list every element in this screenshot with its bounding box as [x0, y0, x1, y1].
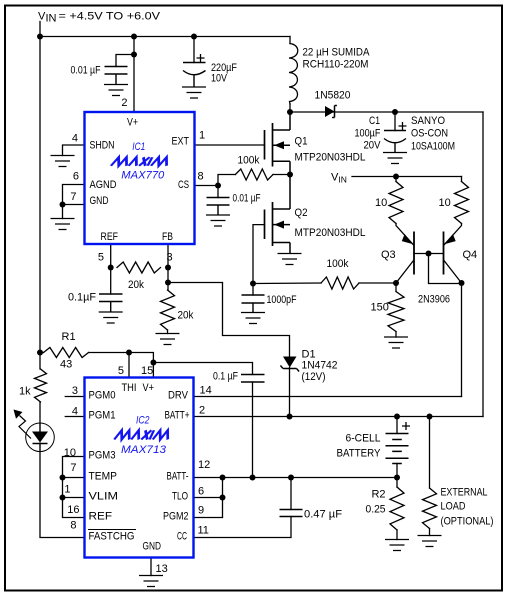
wire 150 stems — [395, 283, 397, 292]
capacitor 0.47uF — [280, 510, 303, 517]
svg-text:10: 10 — [439, 197, 451, 209]
resistor R2 0.25 — [390, 487, 404, 530]
svg-text:MAX713: MAX713 — [121, 444, 167, 456]
junction V+ rail — [131, 34, 137, 40]
junction REF node — [108, 265, 114, 271]
wire zener to BATT+ rail — [289, 368, 291, 417]
svg-text:EXT: EXT — [172, 136, 190, 148]
wire IC2 GND pin13 — [150, 558, 152, 576]
capacitor C1 100uF polarized — [384, 131, 406, 153]
svg-text:V+: V+ — [143, 382, 155, 394]
wire 100k to Q3 collector node — [359, 282, 396, 284]
battery 6-cell — [386, 434, 409, 464]
ground at external load — [418, 536, 442, 547]
wire PGM1 stub — [65, 416, 84, 418]
junction VLIM tie — [60, 495, 66, 501]
svg-text:100k: 100k — [327, 258, 349, 270]
junction C1 tap — [392, 109, 398, 115]
plus sign C1 — [399, 122, 407, 130]
wire R1 to V+ corner — [89, 353, 154, 378]
svg-text:CS: CS — [178, 179, 189, 191]
svg-text:1000pF: 1000pF — [267, 294, 297, 306]
svg-text:CC: CC — [177, 531, 187, 543]
wire TLO/PGM2 bracket — [195, 478, 223, 518]
transistor Q1 MTP20N03HDL n-MOSFET — [265, 112, 291, 175]
junction VIN rail left — [37, 34, 43, 40]
wire BATT- rail — [195, 477, 398, 479]
LED arrow — [19, 416, 31, 439]
svg-text:PGM2: PGM2 — [163, 511, 189, 523]
junction 0.47uF top — [288, 475, 294, 481]
resistor 100k at CS — [235, 169, 273, 180]
capacitor 0.1uF at REF — [99, 294, 123, 312]
wire DRV line — [195, 396, 462, 398]
ground at 150 — [384, 337, 408, 348]
svg-text:2N3906: 2N3906 — [418, 294, 450, 306]
resistor 20k horizontal — [117, 262, 161, 273]
transistor Q3 2N3906 pnp — [413, 232, 415, 275]
op-amp U IC2 MAX713 box — [85, 378, 194, 558]
wire 10L stem — [395, 177, 397, 182]
svg-text:TEMP: TEMP — [89, 471, 118, 483]
svg-text:(OPTIONAL): (OPTIONAL) — [441, 516, 494, 528]
wire inductor bottom lead — [289, 104, 291, 112]
junction TLO tap — [220, 495, 226, 501]
junction FB divider tap — [165, 280, 171, 286]
svg-text:FB: FB — [162, 231, 173, 243]
svg-text:3: 3 — [72, 385, 78, 397]
svg-text:THI: THI — [122, 382, 137, 394]
resistor 1k — [35, 369, 47, 402]
ground at R2 — [385, 540, 409, 551]
junction AGND/GND tie — [60, 202, 66, 208]
wire Q4 emitter lead — [444, 224, 462, 246]
svg-text:PGM1: PGM1 — [89, 410, 116, 422]
wire right rail down — [482, 112, 484, 417]
svg-text:7: 7 — [70, 462, 76, 474]
svg-text:REF: REF — [89, 511, 113, 523]
wire Q3 collector diagonal — [396, 261, 414, 284]
junction 0.01uF tap — [131, 52, 137, 58]
wire CS cap stem — [217, 186, 219, 198]
svg-text:22 µH SUMIDA: 22 µH SUMIDA — [303, 47, 371, 59]
wire Q4 collector diagonal — [444, 261, 462, 284]
junction battery top — [394, 414, 400, 420]
MAXIM logo IC2 — [114, 430, 171, 439]
svg-text:TLO: TLO — [172, 491, 188, 503]
ground at 20k vertical — [156, 334, 180, 345]
svg-text:REF: REF — [101, 231, 119, 243]
svg-text:Q1: Q1 — [295, 136, 308, 148]
MAXIM logo IC1 — [111, 157, 170, 166]
wire gate node to 100k — [253, 282, 321, 285]
wire Q3 emitter lead — [396, 224, 414, 246]
svg-text:0.47 µF: 0.47 µF — [304, 509, 342, 521]
svg-text:IC1: IC1 — [132, 141, 145, 153]
wire base node down to DRV node — [429, 254, 462, 284]
junction ext load tap — [427, 414, 433, 420]
svg-text:5: 5 — [118, 365, 124, 377]
junction Q2 gate node — [250, 281, 256, 287]
wire FB node to zener riser — [168, 283, 290, 358]
svg-text:BATTERY: BATTERY — [337, 448, 382, 460]
svg-text:3: 3 — [167, 252, 173, 264]
wire IC1 AGND — [63, 185, 85, 205]
wire 0.01uF branch — [116, 55, 134, 67]
svg-text:(12V): (12V) — [302, 371, 326, 383]
svg-text:Q2: Q2 — [295, 207, 308, 219]
resistor 10 right — [455, 182, 469, 224]
wire PGM0 stub — [65, 396, 84, 398]
svg-text:15: 15 — [141, 365, 153, 377]
svg-text:20V: 20V — [364, 140, 382, 152]
junction L1/Q1 drain — [287, 109, 293, 115]
wire IC1 EXT to Q1 gate — [195, 144, 265, 146]
wire R2 stems — [396, 478, 398, 488]
wire LED bottom to FASTCHG — [40, 452, 85, 538]
svg-text:0.25: 0.25 — [366, 504, 386, 516]
svg-text:8: 8 — [198, 171, 204, 183]
ground at IC1 GND — [51, 219, 75, 230]
svg-text:EXTERNAL: EXTERNAL — [441, 487, 488, 499]
svg-text:150: 150 — [371, 302, 389, 314]
wire 100k to Q1 source node — [273, 174, 290, 176]
svg-text:7: 7 — [70, 191, 76, 203]
wire C1 stem — [394, 112, 396, 131]
junction BATT- bracket — [220, 475, 226, 481]
ground at 220uF — [182, 87, 206, 98]
wire VIN drop top-left — [39, 22, 41, 37]
svg-text:12: 12 — [198, 459, 210, 471]
svg-text:1N5820: 1N5820 — [315, 90, 351, 102]
svg-text:BATT+: BATT+ — [165, 410, 190, 422]
wire R1 left rail to zigzag — [40, 352, 44, 354]
wire CC to 0.47uF — [195, 517, 292, 538]
svg-text:100µF: 100µF — [355, 128, 381, 140]
svg-text:= +4.5V TO +6.0V: = +4.5V TO +6.0V — [59, 11, 161, 23]
junction zener/BATT+ — [287, 414, 293, 420]
wire 0.1uF down to BATT- rail — [252, 382, 254, 478]
svg-text:10V: 10V — [211, 73, 228, 85]
svg-text:OS-CON: OS-CON — [411, 128, 448, 140]
svg-text:0.1 µF: 0.1 µF — [213, 371, 238, 383]
LED indicator — [26, 423, 55, 452]
svg-text:10: 10 — [375, 197, 387, 209]
junction CS node — [215, 183, 221, 189]
svg-text:43: 43 — [60, 359, 72, 371]
svg-text:RCH110-220M: RCH110-220M — [303, 59, 369, 71]
svg-text:9: 9 — [198, 505, 204, 517]
wire BATT+ rail — [195, 416, 484, 418]
ground at Q2 source — [278, 254, 302, 265]
svg-text:DRV: DRV — [168, 390, 189, 402]
wire IC1 GND — [63, 205, 85, 219]
capacitor 0.01uF top-left — [105, 67, 128, 85]
op-amp U IC1 MAX770 box — [85, 112, 195, 244]
wire V+ node to 0.1uF — [153, 363, 252, 375]
svg-text:100k: 100k — [238, 155, 260, 167]
wire 10R stem — [461, 177, 463, 182]
junction FB node — [165, 265, 171, 271]
wire top rail — [40, 36, 290, 38]
wire 220uF stem — [193, 37, 195, 63]
svg-text:R2: R2 — [371, 489, 385, 501]
svg-text:PGM3: PGM3 — [89, 450, 116, 462]
svg-text:VLIM: VLIM — [89, 491, 119, 503]
ground at IC2 GND pin13 — [139, 576, 163, 587]
svg-text:20k: 20k — [128, 279, 144, 291]
svg-text:6: 6 — [198, 486, 204, 498]
svg-text:BATT-: BATT- — [167, 471, 189, 483]
wire Q2 gate run — [253, 225, 265, 284]
svg-text:14: 14 — [200, 385, 212, 397]
wire 1k top lead — [39, 402, 41, 423]
resistor 150 — [388, 292, 404, 332]
wire Q3 base to Q4 base — [414, 253, 444, 255]
capacitor 0.1uF at IC2 V+ — [241, 375, 265, 383]
ground at SHDN — [51, 156, 75, 167]
svg-text:1: 1 — [199, 130, 205, 142]
capacitor 0.01uF at CS — [207, 198, 230, 216]
wire inductor top lead — [289, 37, 291, 44]
wire CS up to 100k — [218, 175, 235, 186]
svg-text:R1: R1 — [62, 331, 76, 343]
resistor R1 43 — [44, 348, 89, 358]
wire left rail — [39, 37, 41, 370]
svg-text:1: 1 — [64, 484, 70, 496]
svg-text:MTP20N03HDL: MTP20N03HDL — [295, 227, 366, 239]
junction 220uF rail — [191, 34, 197, 40]
junction 0.1uF return — [250, 475, 256, 481]
plus sign battery — [402, 422, 410, 430]
inductor L1 22uH coil — [289, 44, 298, 105]
svg-text:2: 2 — [199, 405, 205, 417]
resistor external load — [423, 488, 437, 529]
svg-text:1k: 1k — [19, 386, 31, 398]
svg-text:GND: GND — [143, 541, 162, 553]
svg-text:4: 4 — [72, 406, 78, 418]
ground at C1 — [383, 153, 407, 164]
svg-text:1N4742: 1N4742 — [302, 360, 338, 372]
junction THI tap — [126, 350, 132, 356]
junction Q3/Q4 base tie — [426, 251, 432, 257]
svg-text:20k: 20k — [178, 310, 194, 322]
svg-text:0.01 µF: 0.01 µF — [233, 193, 261, 205]
svg-text:10: 10 — [64, 447, 76, 459]
wire THI drop — [128, 353, 130, 378]
svg-text:PGM0: PGM0 — [89, 390, 116, 402]
svg-text:AGND: AGND — [90, 179, 117, 191]
junction R1 left — [37, 350, 43, 356]
svg-text:6-CELL: 6-CELL — [346, 433, 381, 445]
diode 1N5820 schottky — [325, 106, 335, 117]
transistor Q2 MTP20N03HDL n-MOSFET — [265, 175, 291, 254]
svg-text:MTP20N03HDL: MTP20N03HDL — [295, 152, 366, 164]
resistor 20k vertical — [161, 290, 175, 330]
svg-text:8: 8 — [70, 520, 76, 532]
svg-text:FASTCHG: FASTCHG — [89, 531, 135, 543]
svg-text:11: 11 — [198, 525, 209, 537]
svg-text:0.1µF: 0.1µF — [68, 292, 96, 304]
svg-text:10SA100M: 10SA100M — [411, 141, 455, 153]
wire V+ drop to IC1 pin2 — [133, 37, 135, 113]
zener D1 1N4742 — [283, 357, 297, 368]
svg-text:16: 16 — [67, 504, 79, 516]
svg-text:IC2: IC2 — [136, 415, 150, 427]
wire IC1 CS node — [195, 185, 219, 187]
wire IC1 REF pin5 down — [110, 244, 112, 268]
ground at 0.01uF top-left — [104, 85, 128, 96]
junction battery bottom/R2 — [394, 475, 400, 481]
ground at 1000pF — [241, 313, 265, 324]
wire REF 0.1uF stem — [110, 268, 112, 295]
svg-text:2: 2 — [121, 97, 127, 109]
transistor Q4 2N3906 pnp — [443, 232, 445, 275]
svg-text:IN: IN — [46, 13, 57, 25]
junction Q4 collector node — [459, 280, 465, 286]
svg-text:13: 13 — [156, 563, 168, 575]
wire 1000pF stem — [252, 284, 254, 296]
wire IC1 FB pin3 down — [167, 244, 169, 283]
wire battery top stem — [396, 417, 398, 434]
junction Q1 source/Q2 drain — [287, 172, 293, 178]
wire VIN mid rail — [352, 176, 462, 178]
svg-text:GND: GND — [90, 195, 109, 207]
svg-text:4: 4 — [72, 133, 78, 145]
svg-text:Q4: Q4 — [463, 249, 478, 261]
junction Q3 collector node — [393, 280, 399, 286]
wire external load stems — [429, 417, 431, 489]
svg-text:6: 6 — [73, 171, 79, 183]
FASTCHG overline — [88, 529, 136, 531]
capacitor 220uF polarized — [183, 63, 206, 88]
wire IC1 SHDN to ground — [63, 145, 85, 156]
svg-text:SHDN: SHDN — [90, 140, 115, 152]
svg-text:MAX770: MAX770 — [121, 170, 165, 182]
wire diode rail — [290, 111, 483, 113]
svg-text:LOAD: LOAD — [441, 501, 466, 513]
svg-text:5: 5 — [98, 252, 104, 264]
capacitor 1000pF — [242, 295, 265, 313]
svg-text:SANYO: SANYO — [411, 115, 445, 127]
ground at CS 0.01uF — [206, 215, 230, 226]
resistor 10 left — [389, 182, 403, 224]
svg-text:0.01 µF: 0.01 µF — [71, 65, 101, 77]
resistor 100k to Q3 — [321, 277, 359, 289]
svg-text:C1: C1 — [369, 115, 380, 127]
wire DRV riser from Q4 — [461, 283, 463, 397]
plus sign 220uF — [197, 54, 205, 62]
junction TEMP tie — [60, 475, 66, 481]
junction V+ IC2 node — [150, 360, 156, 366]
wire 0.47uF top to BATT- rail — [290, 478, 292, 510]
wire battery bottom stem — [396, 464, 398, 478]
wire 20k vert to ground — [167, 330, 169, 334]
wire 20k vert stem — [167, 283, 169, 291]
junction VIN mid rail — [393, 174, 399, 180]
svg-text:V+: V+ — [127, 117, 138, 129]
ground at REF 0.1uF — [99, 312, 123, 323]
svg-text:Q3: Q3 — [381, 249, 396, 261]
wire PGM3/TEMP/VLIM/REF bracket — [63, 457, 85, 518]
